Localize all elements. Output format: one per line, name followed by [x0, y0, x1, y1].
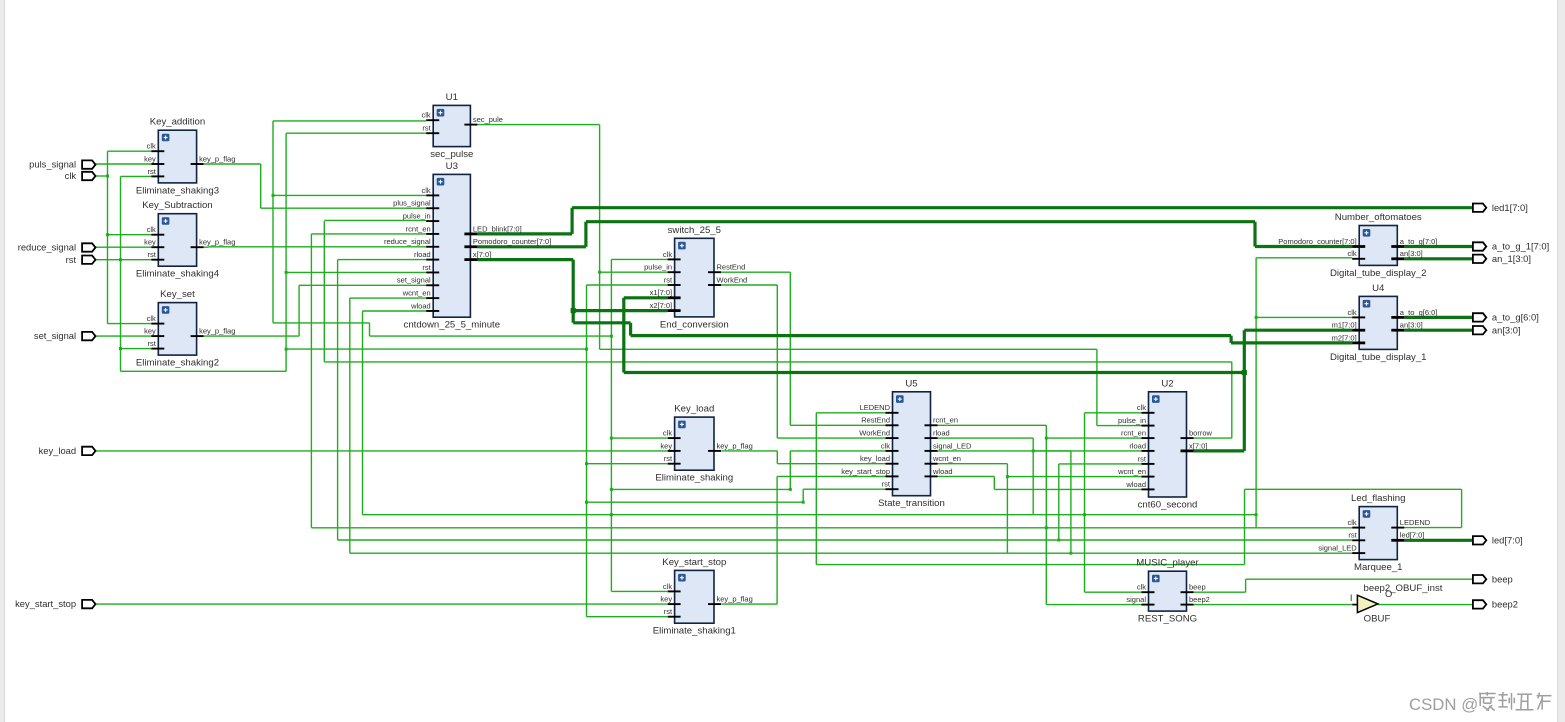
wire clk riser x=1084.5 — [1084, 413, 1086, 592]
block Led_flashing / Marquee_1 — [1318, 493, 1430, 573]
port reduce_signal — [18, 242, 96, 253]
svg-text:End_conversion: End_conversion — [660, 319, 729, 330]
port a_to_g_1[7:0] — [1473, 241, 1549, 252]
wire bundle riser x=349.8 — [349, 298, 351, 553]
svg-text:a_to_g[6:0]: a_to_g[6:0] — [1400, 308, 1438, 317]
wire to U3.rcnt_en — [311, 233, 426, 235]
svg-text:key_load: key_load — [39, 445, 77, 456]
wire borrow riser x=324.3 — [323, 221, 325, 362]
svg-text:signal_LED: signal_LED — [1318, 544, 1357, 553]
bus an_1[3:0] — [1404, 257, 1473, 260]
svg-text:Eliminate_shaking4: Eliminate_shaking4 — [136, 269, 220, 280]
svg-text:O: O — [1385, 588, 1392, 599]
wire U5.wload east — [938, 475, 995, 477]
bus junction x/x2 — [571, 308, 576, 313]
svg-text:WorkEnd: WorkEnd — [859, 429, 890, 438]
wire clk to U1.clk — [273, 120, 426, 122]
port clk — [65, 170, 96, 181]
svg-text:U1: U1 — [446, 92, 458, 103]
wire to U3.rload — [338, 259, 427, 261]
svg-text:x1[7:0]: x1[7:0] — [650, 288, 673, 297]
svg-text:Key_load: Key_load — [674, 404, 714, 415]
wire to U5.key_start_stop — [777, 475, 885, 477]
wire beep east — [1194, 591, 1246, 593]
svg-text:Key_addition: Key_addition — [150, 117, 205, 128]
wire rload riser x=1033.2 — [1032, 438, 1034, 515]
svg-text:CSDN @: CSDN @ — [1409, 695, 1478, 714]
block switch_25_5 / End_conversion — [644, 225, 747, 331]
port set_signal — [34, 330, 96, 341]
wire LEDEND row y=489.3 — [1245, 488, 1462, 490]
wire clk to Key_start_stop.clk — [611, 590, 667, 592]
wire rst to U2.rst — [1059, 463, 1142, 465]
wire clk to MUSIC.clk — [1085, 591, 1142, 593]
svg-text:I: I — [1350, 592, 1353, 603]
block Number_oftomatoes / Digital_tube_display_2 — [1278, 212, 1437, 279]
wire clk to U3.clk — [273, 194, 426, 196]
wire long row y=527.8 to Marquee.clk — [311, 527, 1352, 529]
junction rst/U3 — [285, 271, 288, 274]
svg-text:puls_signal: puls_signal — [29, 159, 76, 170]
svg-text:clk: clk — [422, 111, 431, 120]
svg-text:rst: rst — [1348, 531, 1357, 540]
svg-text:rload: rload — [414, 250, 431, 259]
junction rst row — [285, 348, 288, 351]
svg-text:Pomodoro_counter[7:0]: Pomodoro_counter[7:0] — [473, 237, 551, 246]
svg-text:led[7:0]: led[7:0] — [1400, 531, 1425, 540]
wire rcnt_en riser x=1046.3 — [1045, 425, 1047, 604]
svg-text:rst: rst — [422, 124, 431, 133]
bus to U4.m1 — [1244, 329, 1352, 332]
wire clk to U2.clk — [1085, 412, 1142, 414]
svg-text:REST_SONG: REST_SONG — [1138, 614, 1197, 625]
bus junction U2.x — [1242, 370, 1247, 375]
buffer beep2_OBUF_inst / OBUF — [1350, 583, 1443, 625]
wire Kss.key_p_flag east — [721, 603, 777, 605]
bus an[3:0] — [1404, 329, 1473, 332]
wire clk riser x=107.5 — [107, 151, 109, 323]
wire LEDEND riser x=1461.6 — [1461, 489, 1463, 527]
wire wload to U2 — [994, 488, 1141, 490]
svg-text:a_to_g[7:0]: a_to_g[7:0] — [1400, 237, 1438, 246]
svg-text:clk: clk — [1348, 308, 1357, 317]
svg-text:LEDEND: LEDEND — [860, 403, 891, 412]
svg-text:clk: clk — [422, 186, 431, 195]
wire rst to U1.rst — [286, 132, 426, 134]
svg-text:clk: clk — [65, 170, 77, 181]
wire bundle riser x=311.4 — [310, 234, 312, 528]
svg-text:cnt60_second: cnt60_second — [1138, 500, 1198, 511]
wire rst riser x=120.5 — [120, 176, 122, 371]
svg-text:x[7:0]: x[7:0] — [473, 250, 491, 259]
svg-text:LED_blink[7:0]: LED_blink[7:0] — [473, 224, 522, 233]
svg-text:key_p_flag: key_p_flag — [717, 595, 753, 604]
port beep2 — [1473, 599, 1518, 610]
svg-text:Eliminate_shaking: Eliminate_shaking — [655, 473, 733, 484]
svg-text:Led_flashing: Led_flashing — [1351, 493, 1405, 504]
wire OBUF out to beep2 port — [1378, 604, 1473, 606]
bus to switch.x1 — [624, 296, 668, 299]
svg-text:reduce_signal: reduce_signal — [384, 237, 431, 246]
wire RestEnd to U5 — [790, 424, 885, 426]
wire clk to switch.clk — [611, 258, 667, 260]
wire U2rst riser x=1058.8 — [1058, 464, 1060, 540]
wire LEDEND to Marquee.LEDEND — [1404, 527, 1461, 529]
junction rst/Key_load — [585, 462, 588, 465]
wire sec_pule east — [477, 124, 599, 126]
bus U2.x east — [1194, 449, 1245, 452]
svg-text:Key_start_stop: Key_start_stop — [662, 557, 726, 568]
wire rst to Key_start_stop.rst — [587, 616, 668, 618]
wire KS jog — [208, 246, 210, 248]
wire to U3.reduce_signal — [209, 246, 427, 248]
wire Kset.key_p_flag east — [204, 335, 300, 337]
svg-text:rst: rst — [882, 480, 891, 489]
svg-text:clk: clk — [147, 142, 156, 151]
wire clk to U4.clk — [1256, 316, 1352, 318]
svg-text:U5: U5 — [905, 378, 917, 389]
block Key_start_stop / Eliminate_shaking1 — [653, 557, 753, 637]
svg-text:rst: rst — [1138, 454, 1147, 463]
junction rst/row540 — [1057, 539, 1060, 542]
wire key_start_stop riser — [776, 476, 778, 604]
wire signal_LED riser x=1070.9 — [1070, 451, 1072, 553]
bus x to U4.m2 — [1231, 341, 1352, 344]
junction clk/U3 — [272, 194, 275, 197]
bus riser x=1244.3 — [1243, 330, 1246, 451]
port an_1[3:0] — [1473, 253, 1531, 264]
block Key_Subtraction / Eliminate_shaking4 — [136, 200, 236, 280]
wire sec to U2.pulse_in — [1097, 425, 1142, 427]
port led[7:0] — [1473, 534, 1523, 545]
wire U5.wcnt_en east — [938, 463, 1008, 465]
wire set_signal to Key_set.key — [96, 335, 152, 337]
svg-text:key: key — [660, 441, 672, 450]
svg-text:clk: clk — [147, 225, 156, 234]
wire U5.rload east — [938, 437, 1034, 439]
svg-text:Key_Subtraction: Key_Subtraction — [142, 200, 212, 211]
svg-text:wload: wload — [932, 467, 953, 476]
svg-text:rst: rst — [664, 454, 673, 463]
junction rst/Key_set — [119, 347, 122, 350]
svg-text:Marquee_1: Marquee_1 — [1354, 562, 1403, 573]
svg-text:clk: clk — [147, 314, 156, 323]
svg-text:rload: rload — [933, 429, 950, 438]
svg-text:rst: rst — [147, 339, 156, 348]
wire LEDEND riser x=816.3 — [815, 413, 817, 565]
svg-text:m2[7:0]: m2[7:0] — [1332, 333, 1357, 342]
wire to U3.set_signal — [299, 284, 426, 286]
svg-text:sec_pule: sec_pule — [473, 115, 503, 124]
svg-text:an[3:0]: an[3:0] — [1400, 321, 1423, 330]
wire beep to port — [1246, 578, 1473, 580]
junction row336/riser611 — [610, 335, 613, 338]
svg-text:Key_set: Key_set — [160, 289, 195, 300]
junction rst/U5riser — [802, 501, 805, 504]
svg-text:sec_pulse: sec_pulse — [430, 149, 473, 160]
junction clk — [610, 513, 613, 516]
junction rst/port — [119, 258, 122, 261]
wire reduce_signal to Key_Subtraction.key — [96, 246, 152, 248]
svg-text:U3: U3 — [446, 161, 458, 172]
wire KA.key_p_flag riser — [260, 164, 262, 208]
wire borrow to U3.pulse_in — [324, 219, 426, 221]
wire key_start_stop long — [96, 603, 668, 605]
svg-text:key: key — [144, 327, 156, 336]
svg-text:State_transition: State_transition — [878, 498, 945, 509]
svg-text:rcnt_en: rcnt_en — [1121, 429, 1146, 438]
port rst — [66, 254, 96, 265]
svg-text:Pomodoro_counter[7:0]: Pomodoro_counter[7:0] — [1278, 237, 1356, 246]
svg-text:RestEnd: RestEnd — [861, 416, 890, 425]
wire U5.signal_LED east — [938, 450, 1071, 452]
svg-text:key_p_flag: key_p_flag — [717, 441, 753, 450]
port beep — [1473, 573, 1513, 584]
wire to U5.key_load — [777, 463, 885, 465]
svg-text:set_signal: set_signal — [34, 330, 76, 341]
wire LEDEND to U5.LEDEND — [816, 412, 885, 414]
wire U5.rcnt_en east — [938, 424, 1047, 426]
svg-text:wload: wload — [410, 301, 431, 310]
wire wcnt_en to U2 — [1007, 476, 1141, 478]
wire rst to Key_load.rst — [587, 463, 668, 465]
port an[3:0] — [1473, 324, 1521, 335]
svg-text:key_p_flag: key_p_flag — [199, 154, 235, 163]
svg-text:a_to_g_1[7:0]: a_to_g_1[7:0] — [1492, 241, 1549, 252]
svg-text:rst: rst — [664, 607, 673, 616]
svg-text:rcnt_en: rcnt_en — [933, 416, 958, 425]
wire LEDEND riser x=1244.5 — [1244, 489, 1246, 564]
svg-text:clk: clk — [1137, 403, 1146, 412]
svg-text:rst: rst — [664, 275, 673, 284]
svg-text:Digital_tube_display_1: Digital_tube_display_1 — [1330, 352, 1427, 363]
svg-text:a_to_g[6:0]: a_to_g[6:0] — [1492, 312, 1539, 323]
junction clk/U5riser — [789, 488, 792, 491]
bus LED_blink[7:0] to led1 — [477, 232, 572, 235]
port puls_signal — [29, 159, 95, 170]
bus x[7:0] from U3 — [477, 258, 573, 261]
svg-text:borrow: borrow — [1189, 429, 1213, 438]
wire riser x=362.5 — [362, 311, 364, 515]
svg-text:rst: rst — [147, 167, 156, 176]
wire LEDEND row y=564.6 — [816, 564, 1244, 566]
svg-text:Digital_tube_display_2: Digital_tube_display_2 — [1330, 268, 1427, 279]
wire puls_signal to Key_addition.key — [96, 163, 152, 165]
svg-text:OBUF: OBUF — [1364, 613, 1391, 624]
wire KA.key_p_flag east — [204, 163, 261, 165]
block U5 / State_transition — [841, 378, 972, 509]
wire rst riser x=286.1 — [285, 133, 287, 371]
wire sec_pulse riser x=599.6 — [599, 125, 601, 350]
wire borrow row y=362 — [324, 361, 1232, 363]
svg-text:m1[7:0]: m1[7:0] — [1332, 321, 1357, 330]
wire row y=336 — [370, 335, 612, 337]
wire rst detour row y=371.3 — [121, 370, 287, 372]
svg-text:Eliminate_shaking1: Eliminate_shaking1 — [653, 626, 736, 637]
wire to MUSIC.signal — [1046, 604, 1141, 606]
block U4 / Digital_tube_display_1 — [1330, 283, 1437, 363]
wire clk riser x=611.4 — [610, 259, 612, 591]
svg-text:key: key — [144, 154, 156, 163]
junction rcnt_en/U2 — [1045, 437, 1048, 440]
wire sec to switch.pulse_in — [600, 271, 668, 273]
svg-text:led[7:0]: led[7:0] — [1492, 534, 1523, 545]
svg-text:LEDEND: LEDEND — [1400, 518, 1431, 527]
junction clk/Key_load — [610, 437, 613, 440]
svg-text:pulse_in: pulse_in — [1118, 416, 1146, 425]
svg-text:an_1[3:0]: an_1[3:0] — [1492, 253, 1531, 264]
block U1 / sec_pulse — [422, 92, 503, 160]
wire long row y=540.0 to Marquee.rst — [338, 539, 1353, 541]
bus Pomodoro_counter[7:0] — [477, 245, 586, 248]
svg-text:wcnt_en: wcnt_en — [932, 454, 961, 463]
svg-text:beep2: beep2 — [1492, 599, 1518, 610]
wire rcnt_en to U2 — [1046, 437, 1141, 439]
junction rst/riser586 — [585, 348, 588, 351]
wire rst to switch.rst — [587, 284, 668, 286]
junction clk/U2riser — [1083, 513, 1086, 516]
wire clk to Key_addition.clk — [108, 150, 152, 152]
wire clk-port to riser — [96, 175, 108, 177]
wire clk to Digital_tube_display_2.clk — [1256, 257, 1352, 259]
svg-text:plus_signal: plus_signal — [393, 199, 431, 208]
wire clk row y=322.9 — [273, 322, 370, 324]
wire rst row y=502 — [587, 501, 804, 503]
svg-text:RestEnd: RestEnd — [717, 263, 746, 272]
wire to U3.wcnt_en — [350, 297, 426, 299]
bus x row y=322.8 — [573, 321, 630, 324]
wire RestEnd riser — [789, 272, 791, 425]
svg-text:Eliminate_shaking3: Eliminate_shaking3 — [136, 185, 219, 196]
svg-text:rst: rst — [66, 254, 77, 265]
svg-text:signal_LED: signal_LED — [933, 441, 972, 450]
svg-text:signal: signal — [1126, 595, 1146, 604]
svg-text:clk: clk — [663, 250, 672, 259]
wire clk jog riser x=369.5 — [369, 323, 371, 336]
left scrollbar strip — [0, 0, 5, 722]
svg-text:clk: clk — [663, 429, 672, 438]
bus row y=372.5 — [624, 371, 1245, 374]
junction sec/switch.pulse_in — [598, 271, 601, 274]
junction clk/port — [106, 175, 109, 178]
wire rst row y=349 — [286, 348, 586, 350]
svg-text:pulse_in: pulse_in — [644, 263, 672, 272]
wire clk to Key_Subtraction.clk — [108, 234, 152, 236]
port key_start_stop — [15, 598, 95, 609]
svg-text:rst: rst — [422, 263, 431, 272]
svg-text:beep: beep — [1492, 573, 1513, 584]
wire to U3.wload row y=311 — [363, 310, 427, 312]
wire beep riser — [1245, 579, 1247, 592]
block MUSIC_player / REST_SONG — [1126, 558, 1209, 625]
wire borrow riser x=1231.8 — [1231, 362, 1233, 438]
svg-text:x[7:0]: x[7:0] — [1189, 441, 1207, 450]
junction clk/U4 — [1255, 316, 1258, 319]
svg-text:Eliminate_shaking2: Eliminate_shaking2 — [136, 358, 219, 369]
svg-text:key: key — [144, 238, 156, 247]
svg-text:switch_25_5: switch_25_5 — [668, 225, 721, 236]
wire sec riser x=1096.9 — [1096, 349, 1098, 425]
wire clk right riser x=1256 — [1255, 258, 1257, 528]
wire sec row y=349.3 — [600, 348, 1097, 350]
wire rst-port to Key_Subtraction.rst — [96, 259, 152, 261]
svg-text:MUSIC_player: MUSIC_player — [1136, 558, 1199, 569]
svg-text:clk: clk — [663, 582, 672, 591]
svg-text:key_start_stop: key_start_stop — [15, 598, 76, 609]
port led1[7:0] — [1473, 202, 1528, 213]
wire beep2 to OBUF — [1194, 604, 1354, 606]
wire WorkEnd east — [721, 284, 777, 286]
svg-text:key: key — [660, 595, 672, 604]
wire Key_load.key_p_flag east — [721, 450, 777, 452]
svg-text:cntdown_25_5_minute: cntdown_25_5_minute — [404, 320, 501, 331]
wire rst to U5.rst — [803, 488, 885, 490]
svg-text:clk: clk — [1348, 518, 1357, 527]
bus a_to_g_1[7:0] — [1404, 245, 1473, 248]
port key_load — [39, 445, 96, 456]
svg-text:U4: U4 — [1372, 283, 1385, 294]
wire RestEnd east — [721, 271, 790, 273]
wire Kset riser — [298, 285, 300, 336]
block Key_set / Eliminate_shaking2 — [136, 289, 236, 369]
svg-text:pulse_in: pulse_in — [403, 211, 431, 220]
wire rload to U2 — [1033, 450, 1141, 452]
junction clk row489 — [610, 488, 613, 491]
port a_to_g[6:0] — [1473, 312, 1539, 323]
right scrollbar strip — [1558, 0, 1565, 722]
wire WorkEnd to U5 — [777, 437, 885, 439]
svg-text:U2: U2 — [1161, 378, 1173, 389]
wire long row y=553.2 to Marquee.signal_LED — [350, 552, 1352, 554]
svg-text:key_p_flag: key_p_flag — [199, 327, 235, 336]
junction rcnt_en/row527 — [1045, 526, 1048, 529]
wire rst to Key_set.rst — [121, 348, 152, 350]
svg-text:rload: rload — [1129, 441, 1146, 450]
wire clk long row y=514.7 — [363, 514, 1257, 516]
wire bundle riser x=337.6 — [337, 260, 339, 540]
wire wload riser x=994.3 — [993, 476, 995, 489]
svg-text:set_signal: set_signal — [397, 276, 431, 285]
svg-text:WorkEnd: WorkEnd — [717, 275, 748, 284]
wire clk to Key_load.clk — [611, 437, 667, 439]
wire rst riser x=586.5 — [586, 285, 588, 617]
junction rst row502 — [585, 501, 588, 504]
svg-text:beep2: beep2 — [1189, 595, 1210, 604]
junction rload/U2 — [1032, 449, 1035, 452]
block Key_addition / Eliminate_shaking3 — [136, 117, 236, 197]
wire KS.key_p_flag east — [204, 246, 209, 248]
svg-text:key_start_stop: key_start_stop — [841, 467, 890, 476]
svg-text:key_p_flag: key_p_flag — [199, 238, 235, 247]
wire rst to U3.rst — [286, 271, 426, 273]
wire clk to U5.clk — [790, 450, 885, 452]
wire clk to Key_set.clk — [108, 323, 152, 325]
wire key_load long — [96, 450, 668, 452]
junction clk/right riser — [1255, 513, 1258, 516]
junction wcnt_en/U2 — [1006, 475, 1009, 478]
svg-text:x2[7:0]: x2[7:0] — [650, 301, 673, 310]
svg-text:led1[7:0]: led1[7:0] — [1492, 202, 1528, 213]
svg-text:wcnt_en: wcnt_en — [1117, 467, 1146, 476]
svg-text:reduce_signal: reduce_signal — [18, 242, 76, 253]
wire WorkEnd riser — [776, 285, 778, 438]
junction signal_LED/row553 — [1069, 552, 1072, 555]
svg-text:clk: clk — [1348, 249, 1357, 258]
svg-text:beep2_OBUF_inst: beep2_OBUF_inst — [1364, 583, 1443, 594]
bus a_to_g[6:0] — [1404, 316, 1473, 319]
wire rst to Key_addition.rst — [121, 175, 152, 177]
block U3 / cntdown_25_5_minute — [384, 161, 551, 331]
